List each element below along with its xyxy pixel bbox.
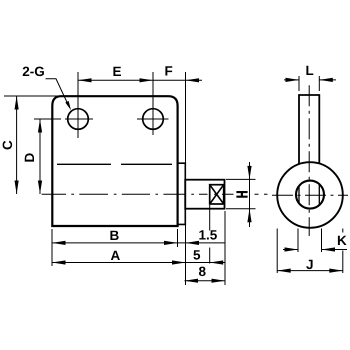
extension line below groove left edge (5) — [209, 205, 211, 264]
dimension L line with outside arrows — [284, 79, 336, 81]
extension line for C at plate top — [4, 95, 60, 97]
svg-text:2-G: 2-G — [22, 64, 45, 79]
svg-text:B: B — [110, 228, 120, 243]
side view: stem — [299, 95, 319, 164]
svg-text:1.5: 1.5 — [199, 228, 218, 243]
arrow A right / 5 left (outside) — [172, 260, 186, 264]
dimension line row 8 — [185, 280, 226, 282]
extension line at strip right edge (F, A, 1.5, 8) — [185, 72, 187, 285]
left hole horizontal center mark / D extension line — [34, 118, 93, 120]
leader line from 2-G to left hole — [46, 79, 69, 106]
dimension line row A and 5 — [52, 262, 225, 264]
side view: bore circle — [296, 181, 324, 209]
front view: spacer strip at right edge — [178, 163, 186, 224]
leader arrowhead — [65, 101, 71, 110]
svg-text:5: 5 — [193, 248, 201, 263]
svg-text:D: D — [22, 153, 37, 163]
side view: horizontal centerline (dash-dot) — [272, 194, 348, 196]
arrow A left — [52, 260, 66, 264]
extension line below plate left edge (A, B) — [51, 229, 53, 266]
arrow 8 right — [212, 279, 226, 283]
svg-text:8: 8 — [199, 264, 207, 279]
side view: stem edges seen through bore (chords) — [299, 184, 319, 205]
front view: groove box with X cross — [210, 185, 224, 204]
extension lines L at stem edges — [298, 76, 300, 91]
extension lines J at boss diameter — [276, 229, 278, 274]
dimension line row E and F — [78, 79, 202, 81]
dimension K line with outside arrows — [283, 249, 347, 251]
svg-text:J: J — [306, 257, 314, 272]
extension line H at shaft bottom — [226, 208, 256, 210]
arrow E right — [140, 78, 154, 82]
extension lines K — [297, 229, 299, 253]
svg-text:E: E — [113, 64, 122, 79]
dimension C vertical line with arrows — [16, 96, 18, 194]
front view: horizontal centerline (dash-dot) — [42, 193, 268, 195]
extension line below plate right edge (B, 1.5) — [177, 229, 179, 247]
arrow H top (outside) — [247, 166, 251, 180]
arrow E left — [78, 78, 92, 82]
side view: outer boss circle — [277, 162, 343, 228]
side view: vertical centerline (dash-dot) — [308, 85, 310, 236]
front view: flange bend edge line (broken) — [57, 163, 172, 165]
svg-text:K: K — [337, 233, 347, 248]
label H (rotated glyph drawn as bars) — [236, 192, 247, 197]
svg-text:A: A — [111, 248, 121, 263]
front view: shaft boss — [185, 180, 224, 209]
front view: right mounting hole G — [143, 109, 164, 130]
dimension H vertical line — [249, 162, 251, 227]
dimension line row B and 1.5 — [52, 242, 225, 244]
dimension D vertical line with arrows — [39, 119, 41, 194]
arrow B right — [164, 241, 178, 245]
arrow 5 right (outside) — [210, 260, 224, 264]
extension line H at shaft top — [226, 178, 256, 180]
extension line below shaft tip (8) — [224, 211, 226, 285]
front view: left mounting hole G — [68, 109, 89, 130]
arrow 1.5 right (outside) — [186, 241, 200, 245]
left hole vertical center mark / E extension line — [77, 72, 79, 138]
svg-text:L: L — [306, 63, 314, 78]
arrow H bottom (outside) — [247, 209, 251, 223]
dimension J line with arrows — [277, 270, 343, 272]
right hole horizontal center mark — [137, 118, 169, 120]
svg-text:C: C — [0, 140, 15, 150]
svg-text:F: F — [165, 64, 173, 79]
arrow F right — [186, 78, 200, 82]
arrow B left — [52, 241, 66, 245]
right hole vertical center mark / E-F extension line — [152, 72, 154, 135]
arrow 8 left — [185, 279, 199, 283]
front view: plate outline — [52, 96, 177, 226]
